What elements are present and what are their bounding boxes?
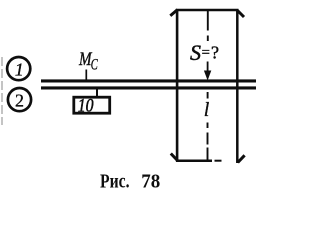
centerline segment top [207, 11, 209, 31]
label Mc (moment of resistance) [78, 49, 98, 73]
svg-text:S: S [190, 40, 201, 65]
band bottom line [176, 159, 212, 162]
force arrow S [204, 62, 211, 81]
band left side [176, 10, 179, 162]
centerline dash below shaft [207, 92, 209, 99]
shaft 1 (top line of shaft) [41, 79, 256, 82]
svg-text:C: C [91, 56, 98, 73]
shaft 2 (bottom line of shaft) [41, 86, 256, 89]
centerline dash 1 below l [207, 123, 209, 129]
svg-text:2: 2 [15, 90, 24, 110]
svg-text:?: ? [211, 43, 219, 63]
svg-text:Рис.: Рис. [100, 171, 130, 193]
node label circle 1 [7, 57, 30, 80]
svg-text:78: 78 [141, 171, 160, 193]
band corner tick top-right [237, 10, 244, 17]
page edge artifact line [1, 57, 3, 125]
band corner tick bottom-right [238, 155, 245, 162]
svg-text:10: 10 [78, 95, 94, 116]
band right side [236, 10, 239, 163]
node label circle 2 [8, 88, 31, 111]
tick from Mc to shaft [85, 70, 87, 80]
band corner tick bottom-left [171, 154, 178, 161]
force label S=? [190, 40, 219, 65]
svg-text:=: = [202, 45, 210, 61]
gearbox box [74, 97, 110, 113]
centerline dash 2 below l [207, 133, 209, 145]
band top line [176, 9, 239, 12]
svg-text:1: 1 [15, 60, 24, 80]
band corner tick top-left [170, 10, 177, 16]
caption Fig. 78 [100, 171, 160, 193]
tick from shaft to gearbox [96, 89, 98, 97]
centerline dash above S [207, 36, 209, 42]
band bottom line dash [215, 160, 222, 162]
svg-text:l: l [204, 99, 210, 121]
centerline dash 3 below l [207, 148, 209, 160]
